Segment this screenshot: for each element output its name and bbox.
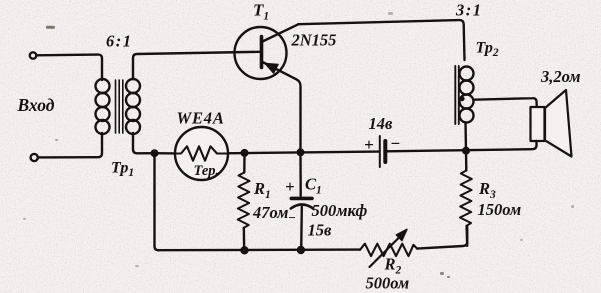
wire collector top rail to Tr2 — [299, 20, 465, 60]
transistor Q1 base bar — [260, 37, 264, 68]
junction dot emitter / C1 — [297, 148, 305, 156]
wire Tr1 secondary bottom to mid rail — [133, 133, 155, 153]
svg-text:500мкф: 500мкф — [312, 201, 368, 220]
transformer Tr1 primary coil — [96, 79, 110, 93]
thermistor zigzag — [176, 146, 227, 160]
transformer Tr1 core — [116, 80, 123, 133]
capacitor C1 top plate — [291, 197, 312, 201]
capacitor C1 bottom lead — [300, 207, 303, 250]
svg-text:Тер.: Тер. — [194, 163, 220, 179]
capacitor C1 bottom curved plate — [291, 205, 313, 209]
input terminal top — [30, 52, 36, 58]
junction dot C1 bottom — [297, 246, 305, 254]
resistor R3 leads and zigzag — [465, 151, 468, 171]
transformer Tr2 core — [455, 66, 459, 124]
resistor R2 zigzag — [360, 244, 417, 256]
wire Tr1 primary bottom to bottom terminal — [39, 133, 103, 157]
junction dot Tr2 tap — [459, 96, 464, 101]
transistor Q1 emitter arrowhead — [265, 63, 278, 73]
wire mid rail battery section — [155, 152, 175, 155]
thermistor WE4A circle — [175, 127, 228, 180]
svg-text:6:1: 6:1 — [106, 32, 133, 51]
svg-text:2N155: 2N155 — [291, 31, 337, 50]
wire Tr2 winding bottom to mid rail junction — [464, 123, 467, 151]
junction dot R1 top — [241, 149, 249, 157]
svg-text:15в: 15в — [308, 221, 333, 240]
svg-text:Вход: Вход — [17, 95, 55, 115]
transistor Q1 emitter wire — [264, 63, 301, 153]
wire top terminal to Tr1 primary top — [36, 55, 102, 80]
battery B1 long plate — [379, 136, 381, 167]
wire bottom rail left — [159, 248, 361, 251]
svg-text:47ом: 47ом — [252, 203, 288, 222]
battery B1 short thick plate — [383, 141, 387, 162]
svg-text:14в: 14в — [369, 114, 394, 133]
wire Tr2 tap to speaker top — [474, 98, 537, 107]
svg-text:3:1: 3:1 — [455, 1, 483, 20]
speaker driver rectangle — [531, 107, 545, 141]
scan smudge top left — [46, 26, 55, 29]
svg-text:+: + — [364, 135, 374, 154]
junction dot R1 bottom — [240, 246, 248, 254]
svg-text:150ом: 150ом — [478, 200, 522, 219]
svg-text:+: + — [285, 177, 295, 196]
transistor Q1 circle — [235, 27, 287, 79]
junction dot R3 / Tr2 — [462, 147, 470, 155]
transistor Q1 collector wire — [263, 24, 299, 41]
wire Tr1 secondary top to transistor base — [133, 52, 260, 79]
transformer Tr1 secondary coil — [126, 79, 140, 93]
wire bottom rail right — [417, 227, 467, 249]
capacitor C1 top lead — [299, 152, 302, 196]
resistor R2 arrow — [370, 234, 404, 268]
resistor R1 leads and zigzag — [243, 153, 246, 173]
speaker horn — [545, 90, 572, 157]
svg-text:500ом: 500ом — [366, 274, 410, 293]
junction dot node A left branch — [151, 149, 159, 157]
svg-text:−: − — [288, 210, 296, 225]
transformer Tr2 winding — [460, 67, 474, 81]
svg-text:−: − — [390, 134, 400, 153]
svg-text:3,2ом: 3,2ом — [540, 67, 581, 86]
wire left branch vertical — [155, 153, 159, 250]
svg-text:WE4A: WE4A — [177, 109, 225, 128]
input terminal bottom — [31, 154, 38, 161]
